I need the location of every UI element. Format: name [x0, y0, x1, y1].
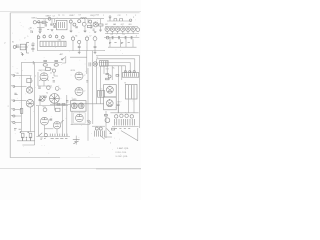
wire bus3 right: [104, 37, 139, 39]
ground G8: [94, 52, 97, 54]
wire plate V1: [36, 21, 48, 23]
wire bus elbow 4: [101, 66, 126, 73]
tube V23 rectifier: [106, 100, 113, 107]
capacitor C16 plus: [22, 137, 24, 141]
wire f2: [44, 125, 57, 134]
svg-text:R5: R5: [17, 73, 19, 75]
switch S2: [39, 133, 43, 136]
schematic border left: [9, 13, 11, 158]
resistor R13: [62, 103, 65, 105]
wire t4 drop: [103, 66, 105, 74]
svg-text:C8: C8: [111, 34, 113, 36]
resistor R18: [116, 75, 119, 77]
ground G6 top right: [109, 15, 112, 21]
svg-text:2. R.F. COIL: 2. R.F. COIL: [115, 152, 127, 154]
ground G2: [51, 30, 54, 32]
diag wire g6: [100, 135, 105, 139]
capacitor C25: [53, 81, 55, 82]
wire b4: [32, 42, 34, 52]
resistor R17: [106, 78, 109, 80]
capacitor C11: [118, 36, 121, 39]
wire ant bus: [33, 61, 62, 63]
ground G7: [78, 52, 81, 54]
tube V6: [110, 27, 114, 31]
wire cap drops: [23, 138, 31, 141]
svg-text:2: 2: [35, 76, 36, 78]
wire grid drop: [39, 22, 41, 31]
coupling cap C6a: [129, 19, 131, 21]
tube V8a: [126, 27, 130, 31]
wire bottom chain: [17, 140, 35, 142]
tube V2: [48, 17, 51, 20]
wire row3 return: [108, 46, 137, 48]
capacitor C21: [50, 119, 52, 120]
diag wire to chassis: [121, 131, 138, 141]
tube V18: [75, 87, 83, 95]
coupling cap C2a: [38, 21, 40, 23]
tube V1: [33, 21, 36, 24]
lamp bars: [73, 140, 80, 142]
svg-text:2: 2: [24, 37, 26, 39]
terminal labels column: [11, 75, 13, 122]
terminal TP3: [13, 100, 15, 102]
svg-text:1: 1: [110, 143, 111, 145]
trimmer TC2: [43, 35, 46, 38]
wire h verticals: [107, 66, 112, 80]
wire e3: [53, 103, 55, 110]
trimmer TC1: [37, 36, 40, 39]
coil L2: [81, 17, 87, 20]
svg-text:T4: T4: [46, 93, 48, 95]
tube V3e: [89, 20, 92, 23]
svg-text:12AT6: 12AT6: [72, 98, 77, 101]
arrow wire: [107, 128, 112, 133]
coil L4 top: [54, 60, 58, 61]
terminal TP5: [13, 109, 15, 111]
svg-text:2: 2: [136, 35, 138, 37]
ticks b: [17, 44, 18, 48]
tube V9: [71, 37, 74, 40]
resistor R20: [112, 128, 115, 130]
svg-text:C2: C2: [44, 19, 46, 21]
wire v3 drops: [71, 19, 91, 31]
specks s2: [14, 129, 21, 130]
tick marks g: [86, 81, 88, 83]
svg-text:C9: C9: [78, 14, 80, 16]
resistor R21: [46, 67, 51, 70]
socket Xb: [129, 71, 131, 73]
terminal TP2: [13, 86, 15, 88]
svg-text:6K7G: 6K7G: [71, 70, 76, 72]
wire e4: [50, 103, 70, 105]
wire ps bottom: [112, 125, 139, 127]
specks ps: [115, 128, 130, 130]
socket X2: [99, 127, 102, 130]
tick marks e: [66, 100, 68, 102]
svg-text:25: 25: [50, 72, 52, 74]
rung 3 wire: [14, 100, 26, 102]
tube V7: [115, 27, 119, 31]
wire chassis corner: [21, 61, 33, 63]
tube V3c: [78, 20, 81, 23]
pot VC1: [47, 86, 51, 90]
capacitor C10: [111, 36, 114, 39]
wire h bottom: [104, 136, 112, 138]
tick marks tb: [89, 62, 91, 66]
capacitor C14 electrolytic: [21, 133, 24, 138]
tube V22: [107, 86, 114, 93]
ground G1: [39, 32, 42, 34]
trimmer TC4: [55, 35, 58, 38]
rung 1 wire: [14, 75, 31, 77]
IF transformer T3 can: [57, 20, 68, 30]
svg-text:6SK7: 6SK7: [69, 15, 75, 17]
svg-text:2: 2: [84, 90, 85, 92]
tube V16: [53, 122, 60, 129]
capacitor C15 electrolytic: [29, 133, 32, 138]
wire f mid: [44, 128, 53, 130]
capacitor C18 plus: [30, 137, 32, 141]
rung 2 wire: [14, 86, 27, 88]
tube V14: [40, 73, 48, 81]
dial terminal strip TB1: [40, 41, 66, 46]
ground G4: [84, 31, 87, 33]
capacitor C4c: [45, 25, 50, 30]
socket X7: [130, 115, 133, 118]
wire g bottom: [71, 103, 104, 105]
capacitor C22: [117, 104, 120, 113]
svg-text:2: 2: [8, 106, 9, 108]
capacitor C6: [120, 19, 123, 22]
specks s1: [14, 93, 17, 94]
resistor R19: [104, 114, 107, 116]
transformer T7: [98, 90, 105, 97]
resistor bank RB: [122, 73, 138, 78]
wire AVC: [37, 27, 45, 29]
svg-text:R1: R1: [30, 28, 32, 30]
wire drops row3: [110, 38, 133, 48]
filter bank FB: [115, 119, 135, 125]
potentiometer VC2: [43, 108, 47, 112]
power transformer T6: [125, 84, 137, 99]
resistor R9: [20, 108, 23, 113]
wire osc drop: [52, 19, 55, 26]
wire f bus: [36, 105, 68, 107]
socket X3: [108, 75, 111, 78]
tube V8b: [131, 27, 135, 31]
svg-text:2: 2: [135, 15, 136, 17]
capacitor C8: [94, 46, 97, 47]
wire drop r3: [125, 39, 127, 47]
page fold streak bottom: [0, 168, 141, 170]
capacitor C13: [130, 36, 133, 39]
speck row r3: [109, 42, 130, 43]
tube V8: [121, 27, 125, 31]
switch arm: [73, 141, 78, 144]
tube V17: [75, 72, 83, 80]
wire bus elbow 2: [97, 59, 135, 73]
pilot P1: [13, 46, 16, 49]
antenna arrow: [61, 58, 64, 60]
rung 4 wire: [15, 115, 21, 117]
oscillator coil L1: [93, 62, 97, 66]
svg-text:C7: C7: [89, 36, 91, 38]
can box K2: [104, 97, 117, 110]
capacitor C19: [105, 73, 109, 74]
capacitor C4: [75, 27, 77, 28]
wire row2 bus: [37, 50, 105, 52]
ground G9: [94, 31, 97, 34]
capacitor C5: [114, 19, 117, 22]
tube V5: [105, 27, 109, 31]
coil L3 bottom: [43, 64, 47, 67]
wire v4 drop: [100, 19, 102, 30]
svg-text:6SA7: 6SA7: [46, 15, 52, 18]
socket X1: [95, 127, 98, 130]
wire f1: [61, 106, 63, 137]
svg-text:C4: C4: [53, 15, 55, 17]
tube V4: [93, 22, 98, 27]
svg-text:3. OSC. COIL: 3. OSC. COIL: [115, 156, 128, 158]
capacitor C20: [38, 87, 41, 88]
capacitor C7: [78, 46, 81, 47]
tube V3b: [73, 23, 76, 26]
tube V14 pins: [39, 80, 48, 81]
svg-text:C9: C9: [123, 34, 125, 36]
svg-text:6SQ7: 6SQ7: [90, 15, 96, 17]
wire chain return: [22, 141, 34, 145]
wire bus2: [70, 18, 104, 20]
coil L4 bottom: [54, 64, 58, 67]
svg-text:ANT: ANT: [60, 53, 63, 56]
socket X6: [125, 114, 128, 117]
heater bus wire: [105, 25, 138, 27]
tube V10: [78, 40, 81, 43]
capacitor C17 plus: [26, 137, 28, 141]
wire e0: [50, 69, 58, 76]
wire long vB: [66, 95, 68, 136]
antenna lead: [62, 56, 66, 63]
heater return wire: [105, 31, 139, 33]
switch box S1: [27, 43, 29, 53]
socket X5: [120, 114, 123, 117]
svg-text:T2: T2: [58, 15, 60, 17]
connector pins TB3: [95, 131, 105, 137]
svg-text:5: 5: [101, 88, 102, 90]
capacitor C23: [31, 44, 34, 45]
svg-text:6Q7: 6Q7: [121, 24, 124, 26]
coil Lb: [20, 44, 26, 50]
specks f: [40, 138, 45, 139]
rung 5 wire: [15, 122, 21, 124]
ticks left: [31, 30, 33, 33]
svg-text:R4: R4: [96, 14, 98, 16]
svg-text:R6: R6: [75, 36, 77, 38]
tube V15: [41, 117, 49, 125]
wire ladder right: [34, 62, 36, 141]
speaker transformer T5: [50, 94, 60, 104]
tube V8c: [136, 28, 140, 32]
resistor R3: [87, 25, 92, 27]
wire h left v: [105, 111, 107, 138]
wire b1: [16, 46, 28, 48]
resistor R14: [39, 99, 41, 100]
svg-text:R9: R9: [52, 78, 54, 80]
svg-text:2: 2: [32, 81, 33, 83]
page fold streak top: [0, 10, 141, 12]
svg-text:2: 2: [103, 15, 104, 17]
resistor R5: [27, 78, 31, 82]
switch S3: [61, 120, 64, 123]
wire f left: [37, 106, 39, 137]
tube V20: [78, 103, 84, 109]
pilot lamp P2: [44, 134, 47, 137]
svg-text:6K7: 6K7: [105, 24, 108, 26]
jack J3: [13, 121, 15, 123]
svg-text:C12: C12: [118, 15, 121, 17]
wire bus elbow 1: [96, 55, 139, 128]
svg-text:S1: S1: [12, 42, 14, 44]
can box K1: [104, 85, 117, 97]
wire bus right: [107, 20, 131, 22]
capacitor C1: [39, 29, 42, 30]
svg-text:6F6: 6F6: [129, 24, 132, 26]
resistor R12: [57, 103, 60, 105]
svg-text:B+: B+: [113, 68, 115, 70]
tube V11: [85, 37, 88, 40]
resistor R15: [44, 96, 47, 97]
tube V21: [76, 114, 84, 122]
terminal TP1: [13, 75, 15, 77]
schematic border top: [10, 12, 139, 14]
wire top bus: [37, 18, 71, 20]
wire ladder main: [20, 62, 22, 131]
coil L3 top: [43, 60, 47, 61]
tube V26: [40, 96, 45, 101]
schematic border bottom: [10, 157, 60, 159]
wire g long: [87, 104, 89, 141]
capacitor C3: [50, 24, 52, 25]
wire drop a3: [87, 19, 89, 24]
rung 3b wire: [15, 109, 22, 111]
tube V3d: [82, 22, 86, 26]
trimmer Ct: [53, 23, 55, 25]
socket X4: [115, 115, 118, 118]
wire ps top: [110, 112, 138, 114]
tube V24: [26, 87, 32, 93]
wire g3: [71, 111, 90, 125]
trimmer TC3: [49, 35, 52, 38]
wire e1: [43, 81, 45, 86]
wire h5: [121, 66, 123, 80]
specks: [93, 29, 95, 30]
wire g verticals: [88, 51, 101, 104]
capacitor C12: [124, 36, 127, 39]
svg-text:2: 2: [84, 75, 85, 77]
wire row2 left: [36, 35, 38, 51]
svg-text:5: 5: [126, 14, 127, 16]
capacitor C24: [31, 48, 34, 49]
wire p: [75, 136, 77, 145]
tube V3: [69, 20, 72, 23]
tube V25: [26, 100, 34, 108]
jack J2: [13, 115, 15, 117]
switch marks: [87, 120, 91, 124]
ground G3: [70, 31, 73, 33]
socket X9: [55, 87, 59, 91]
wire h57: [70, 56, 87, 58]
ground G5: [99, 30, 102, 32]
wire bus elbow 3: [99, 62, 131, 72]
wire f strip bus: [36, 135, 70, 137]
svg-text:2: 2: [60, 88, 61, 90]
svg-text:5: 5: [27, 36, 28, 38]
wire ladder mid: [30, 76, 32, 132]
wire right v: [137, 128, 139, 141]
faint frame: [74, 113, 86, 123]
terminal strip TB2: [50, 134, 67, 137]
svg-text:6A8: 6A8: [113, 23, 116, 26]
resistor R1: [42, 21, 46, 23]
wire g5: [92, 125, 105, 127]
wire t6 drops: [129, 99, 134, 113]
tube V13: [106, 36, 109, 39]
strip lower dashes: [51, 137, 68, 139]
wire h1: [117, 66, 119, 113]
IF can T8: [71, 101, 86, 112]
wire long vertical vA: [86, 51, 88, 74]
resistor R16: [55, 108, 60, 111]
tube V12: [93, 37, 97, 41]
svg-text:2: 2: [133, 17, 135, 19]
socket Xa: [124, 71, 126, 73]
wire e5: [39, 95, 41, 105]
tube V19: [72, 103, 78, 109]
wire elbow stubs: [97, 59, 101, 68]
contact marks: [21, 52, 24, 56]
wire e2: [38, 72, 52, 86]
trimmer TC5: [62, 36, 65, 39]
socket X10: [52, 69, 55, 72]
socket Xc: [133, 71, 135, 73]
wire g4: [92, 104, 94, 124]
svg-text:T3: T3: [62, 15, 64, 17]
IF transformer T4 can: [100, 61, 109, 67]
resistor R2: [99, 24, 103, 26]
socket X8: [105, 118, 110, 123]
wire ladder bottom: [20, 131, 35, 133]
svg-text:1. ANT. COIL: 1. ANT. COIL: [117, 147, 130, 150]
svg-text:2: 2: [4, 42, 6, 44]
svg-text:5Y3: 5Y3: [117, 102, 120, 104]
